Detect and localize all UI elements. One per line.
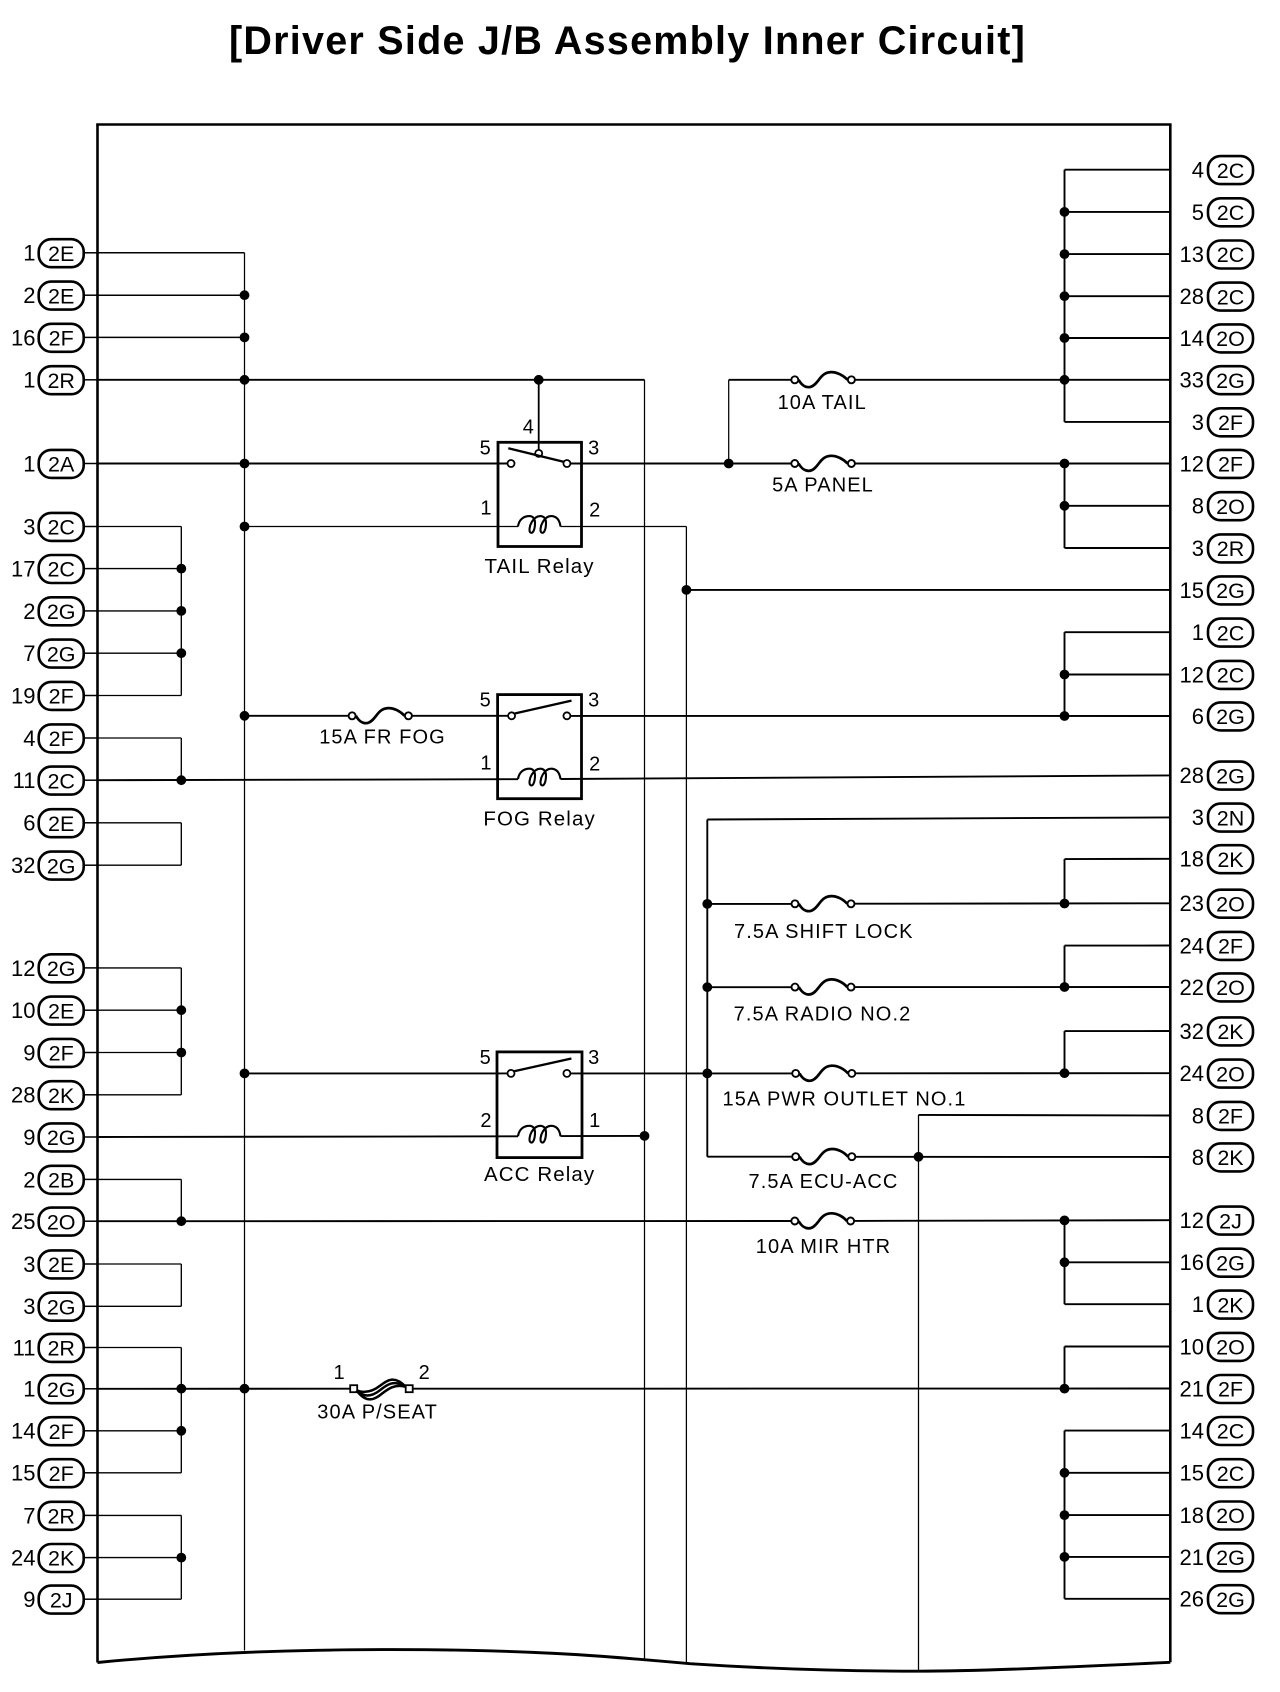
cluster bracket vertical 3 2E/3 2G [180, 1264, 182, 1306]
wire pin 11 2R to cluster bracket [98, 1347, 182, 1349]
connector pin 6 (2G) right, y=716.0 [1192, 702, 1253, 730]
svg-text:25: 25 [11, 1209, 35, 1234]
svg-text:4: 4 [523, 416, 535, 438]
J/B assembly box: curved bottom border [98, 1650, 1171, 1672]
svg-text:2G: 2G [47, 1295, 76, 1319]
wire pin 14 2F to cluster bracket [98, 1430, 182, 1432]
right bracket vertical 12 2F..3 2R [1064, 464, 1066, 549]
junction right bracket / 21 2F [1060, 1384, 1069, 1393]
connector pin 3 (2E) left, y=1264.0 [23, 1250, 98, 1278]
connector pin 11 (2C) left, y=780.2 [13, 767, 99, 795]
wire pin 9 2J to cluster bracket [98, 1598, 182, 1600]
junction right bracket / 12 2C [1060, 670, 1069, 679]
vertical x=644 from 1 2R line to bottom edge [644, 380, 646, 1661]
connector pin 1 (2A) left, y=463.5 [23, 450, 98, 478]
cluster bracket vertical 7 2R/24 2K/9 2J [180, 1515, 182, 1599]
svg-text:24: 24 [1180, 933, 1204, 958]
wire bracket to pin 8 2O [1065, 505, 1171, 507]
connector pin 24 (2O) right, y=1073.2 [1180, 1060, 1253, 1088]
junction bus A / ACC contact line [240, 1069, 249, 1078]
wire bracket to pin 18 2O [1065, 1514, 1171, 1516]
svg-text:2G: 2G [47, 854, 76, 878]
svg-text:11: 11 [13, 768, 36, 793]
wire pin 2 2B to cluster bracket [98, 1178, 182, 1180]
svg-text:2F: 2F [49, 1462, 74, 1486]
connector pin 24 (2K) left, y=1557.6 [11, 1544, 98, 1572]
wire bracket to pin 1 2C [1065, 631, 1171, 633]
svg-text:1: 1 [480, 498, 492, 520]
connector pin 33 (2G) right, y=379.8 [1180, 366, 1253, 394]
svg-text:1: 1 [23, 241, 35, 266]
wire TAIL relay pin 4 riser from 1 2R line [538, 380, 540, 450]
vertical bus A at x=244.5 from 1 2E down to bottom edge [244, 253, 246, 1651]
wire junction x=686 to pin 15 2G [686, 589, 1170, 591]
connector pin 21 (2G) right, y=1556.9 [1180, 1543, 1253, 1571]
wire pin 32 2G to cluster bracket [98, 864, 182, 866]
junction right bracket / 24 2O [1060, 1069, 1069, 1078]
svg-text:2: 2 [589, 753, 601, 775]
svg-text:2F: 2F [49, 327, 74, 351]
svg-text:2G: 2G [1216, 1251, 1245, 1275]
J/B assembly box: left border [96, 125, 99, 1663]
svg-text:5A PANEL: 5A PANEL [772, 475, 874, 497]
connector pin 1 (2C) right, y=632.2 [1192, 619, 1253, 647]
right bracket vertical 24 2F to RADIO line [1064, 946, 1066, 988]
svg-text:2F: 2F [1218, 411, 1243, 435]
svg-text:5: 5 [1192, 200, 1204, 225]
svg-text:3: 3 [23, 1252, 35, 1277]
wire riser to 10A TAIL fuse [729, 379, 791, 381]
wire pin 7 2G to cluster bracket [98, 652, 182, 654]
junction bus A / P-SEAT line [240, 1384, 249, 1393]
svg-text:2J: 2J [1219, 1209, 1242, 1233]
svg-text:24: 24 [1180, 1061, 1204, 1086]
wire pin 2 2G to cluster bracket [98, 610, 182, 612]
svg-text:18: 18 [1180, 1503, 1204, 1528]
connector pin 3 (2F) right, y=421.9 [1192, 408, 1253, 436]
wire bracket to pin 16 2G [1065, 1261, 1171, 1263]
connector pin 32 (2G) left, y=865.2 [11, 852, 98, 880]
junction bracket / 24 2K [177, 1553, 186, 1562]
connector pin 8 (2K) right, y=1157.0 [1192, 1143, 1253, 1171]
svg-text:ACC Relay: ACC Relay [484, 1163, 595, 1186]
fusible link 30A P/SEAT: terminals and twisted element [350, 1380, 413, 1400]
junction bus A / 16 2F [240, 333, 249, 342]
svg-text:3: 3 [23, 514, 35, 539]
svg-text:2F: 2F [1218, 935, 1243, 959]
svg-text:9: 9 [23, 1040, 35, 1065]
wire pin 12 2G to cluster bracket [98, 967, 182, 969]
relay TAIL: switch blade [508, 448, 563, 461]
svg-text:2O: 2O [1216, 1062, 1245, 1086]
wire pin 1 2E to bus node A [98, 252, 245, 254]
connector pin 9 (2J) left, y=1599.2 [23, 1586, 98, 1614]
svg-text:12: 12 [1180, 1208, 1204, 1233]
svg-text:2E: 2E [48, 242, 74, 266]
wire pin 1 2A to TAIL relay contact 5 [98, 463, 508, 465]
relay FOG: contact circle pin 3 [563, 712, 570, 719]
svg-text:8: 8 [1192, 494, 1204, 519]
svg-text:TAIL Relay: TAIL Relay [485, 555, 595, 578]
svg-text:5: 5 [480, 1047, 492, 1069]
svg-text:5: 5 [480, 438, 492, 460]
svg-text:2C: 2C [1217, 201, 1244, 225]
svg-text:2K: 2K [48, 1084, 75, 1108]
svg-text:11: 11 [13, 1335, 36, 1360]
connector pin 1 (2G) left, y=1388.8 [23, 1375, 98, 1403]
relay FOG: contact circle pin 5 [508, 712, 515, 719]
fuse 15A FR FOG: terminal circles and wavy element [349, 708, 412, 723]
cluster bracket vertical 6 2E/32 2G [180, 823, 182, 865]
wire fuse bus bottom to 7.5A ECU-ACC fuse [707, 1156, 792, 1158]
svg-text:24: 24 [11, 1546, 35, 1571]
junction right bracket / 12 2F [1060, 459, 1069, 468]
relay ACC: switch blade [514, 1059, 571, 1072]
connector pin 2 (2E) left, y=295.2 [23, 282, 98, 310]
svg-text:2R: 2R [1217, 537, 1244, 561]
svg-text:21: 21 [1180, 1545, 1204, 1570]
fuse 10A MIR HTR: terminal circles and wavy element [791, 1213, 854, 1228]
svg-text:12: 12 [1180, 662, 1204, 687]
svg-text:10A MIR HTR: 10A MIR HTR [756, 1236, 891, 1258]
svg-text:2J: 2J [50, 1588, 73, 1612]
connector pin 11 (2R) left, y=1347.5 [13, 1334, 99, 1362]
wire 15A FR FOG fuse to FOG relay contact 5 [412, 715, 508, 717]
connector pin 17 (2C) left, y=568.6 [11, 555, 98, 583]
svg-text:5: 5 [480, 690, 492, 712]
svg-text:2G: 2G [1216, 579, 1245, 603]
relay ACC: contact circle pin 5 [508, 1070, 515, 1077]
junction right bracket / 28 2C [1060, 292, 1069, 301]
wire pin 9 2F to cluster bracket [98, 1052, 182, 1054]
svg-text:2C: 2C [1217, 243, 1244, 267]
connector pin 25 (2O) left, y=1221.2 [11, 1208, 98, 1236]
junction fuse bus / PWR OUTLET line [703, 1069, 712, 1078]
svg-text:18: 18 [1180, 847, 1204, 872]
fuse bus vertical x=707 [706, 820, 708, 1157]
junction bus A / 2 2E [240, 291, 249, 300]
svg-text:4: 4 [23, 726, 35, 751]
wire bracket to pin 14 2O [1065, 337, 1171, 339]
svg-text:3: 3 [1192, 536, 1204, 561]
relay FOG: coil [518, 769, 561, 786]
junction right bracket / 13 2C [1060, 250, 1069, 259]
junction x=644 / ACC coil pin 1 [640, 1132, 649, 1141]
svg-text:7.5A RADIO NO.2: 7.5A RADIO NO.2 [734, 1004, 912, 1026]
wire 10A TAIL fuse to pin 33 2G [855, 379, 1170, 381]
svg-text:8: 8 [1192, 1103, 1204, 1128]
wire pin 10 2E to cluster bracket [98, 1009, 182, 1011]
relay FOG: switch blade [515, 701, 572, 714]
svg-text:2O: 2O [1216, 892, 1245, 916]
connector pin 3 (2N) right, y=817.2 [1192, 804, 1253, 832]
svg-text:2G: 2G [1216, 1588, 1245, 1612]
connector pin 19 (2F) left, y=695.5 [11, 682, 98, 710]
svg-text:12: 12 [11, 956, 35, 981]
wire bracket to pin 18 2K [1065, 858, 1171, 860]
svg-text:15: 15 [1180, 578, 1204, 603]
svg-text:2O: 2O [47, 1210, 76, 1234]
svg-text:26: 26 [1180, 1587, 1204, 1612]
connector pin 28 (2K) left, y=1094.8 [11, 1081, 98, 1109]
svg-text:14: 14 [11, 1419, 35, 1444]
svg-text:2O: 2O [1216, 495, 1245, 519]
fuse 15A PWR OUTLET NO.1: terminal circles and wavy element [792, 1066, 855, 1081]
connector pin 16 (2F) left, y=337.4 [11, 324, 98, 352]
wire pin 7 2R to cluster bracket [98, 1514, 182, 1516]
svg-text:21: 21 [1180, 1377, 1204, 1402]
wire pin 16 2F to bus node A [98, 336, 245, 338]
svg-text:2A: 2A [48, 453, 75, 477]
connector pin 12 (2J) right, y=1220.2 [1180, 1207, 1253, 1235]
wire bus node A to 15A FR FOG fuse [245, 715, 349, 717]
wire bus node A to ACC relay contact 5 [245, 1072, 508, 1074]
right bracket vertical 4 2C..3 2F [1064, 170, 1066, 422]
svg-text:17: 17 [11, 557, 35, 582]
svg-text:2O: 2O [1216, 1336, 1245, 1360]
wire bracket to pin 28 2C [1065, 295, 1171, 297]
svg-text:6: 6 [23, 811, 35, 836]
svg-text:10: 10 [1180, 1334, 1204, 1359]
fuse 5A PANEL: terminal circles and wavy element [791, 456, 855, 471]
junction right bracket / 6 2G [1060, 712, 1069, 721]
vertical x=686 from TAIL coil down to bottom edge [685, 527, 687, 1664]
wire 7.5A RADIO NO.2 fuse to pin 22 2O [855, 986, 1171, 988]
junction bus A / TAIL coil feed [240, 522, 249, 531]
svg-text:15: 15 [11, 1461, 35, 1486]
svg-text:3: 3 [23, 1294, 35, 1319]
svg-text:23: 23 [1180, 891, 1204, 916]
svg-text:2G: 2G [47, 1378, 76, 1402]
junction right bracket / 5 2C [1060, 208, 1069, 217]
svg-text:9: 9 [23, 1125, 35, 1150]
connector pin 23 (2O) right, y=903.3 [1180, 890, 1253, 918]
connector pin 5 (2C) right, y=211.9 [1192, 198, 1253, 226]
connector pin 22 (2O) right, y=987.0 [1180, 973, 1253, 1001]
junction right bracket / 15 2C [1060, 1468, 1069, 1477]
wire bracket to pin 24 2F [1065, 945, 1171, 947]
svg-text:2N: 2N [1217, 806, 1244, 830]
junction fuse bus / SHIFT LOCK line [703, 900, 712, 909]
svg-text:2K: 2K [48, 1547, 75, 1571]
wire pin 1 2G to 30A P/SEAT fusible link [98, 1388, 351, 1390]
svg-text:3: 3 [1192, 410, 1204, 435]
relay FOG: case [498, 695, 582, 799]
connector pin 6 (2E) left, y=822.8 [23, 809, 98, 837]
svg-text:2F: 2F [1218, 1378, 1243, 1402]
svg-text:2K: 2K [1217, 1020, 1244, 1044]
svg-text:32: 32 [11, 853, 35, 878]
relay TAIL: contact circle pin 3 [563, 460, 570, 467]
junction bus A / 1 2A line [240, 459, 249, 468]
connector pin 26 (2G) right, y=1598.8 [1180, 1585, 1253, 1613]
wire bracket to pin 5 2C [1065, 211, 1171, 213]
connector pin 9 (2G) left, y=1137.0 [23, 1123, 98, 1151]
wire 7.5A SHIFT LOCK fuse to pin 23 2O [855, 902, 1171, 904]
fuse 7.5A SHIFT LOCK: terminal circles and wavy element [792, 896, 855, 911]
junction right bracket / 14 2O [1060, 334, 1069, 343]
vertical x=918 from 8 2F line to bottom edge [918, 1115, 920, 1671]
fuse 10A TAIL: terminal circles and wavy element [791, 372, 855, 387]
connector pin 21 (2F) right, y=1388.6 [1180, 1375, 1253, 1403]
svg-text:1: 1 [333, 1362, 345, 1384]
wire ACC relay contact 3 to 15A PWR OUTLET fuse [571, 1072, 792, 1074]
svg-text:2K: 2K [1217, 1293, 1244, 1317]
junction x=918 / ECU-ACC line [914, 1152, 923, 1161]
svg-text:2E: 2E [48, 999, 74, 1023]
relay TAIL: contact circle pin 4 [535, 450, 542, 457]
connector pin 8 (2F) right, y=1115.5 [1192, 1102, 1253, 1130]
relay ACC: contact circle pin 3 [563, 1070, 570, 1077]
junction bus A / 1 2R [240, 375, 249, 384]
right bracket vertical 18 2K to SHIFT LOCK line [1064, 859, 1066, 904]
junction bracket / 10 2E [177, 1006, 186, 1015]
right bracket vertical 12 2J..1 2K [1064, 1220, 1066, 1304]
connector pin 14 (2O) right, y=338.0 [1180, 324, 1253, 352]
connector pin 10 (2E) left, y=1010.2 [11, 997, 98, 1025]
wire bracket to pin 4 2C [1065, 169, 1171, 171]
junction fuse bus / RADIO line [703, 983, 712, 992]
wire pin 2 2E to bus node A [98, 294, 245, 296]
junction PANEL line / TAIL fuse riser [724, 459, 733, 468]
cluster bracket vertical 4 2F/11 2C [180, 738, 182, 780]
wire 30A P/SEAT fusible link to pin 21 2F [413, 1388, 1170, 1390]
connector pin 1 (2K) right, y=1304.2 [1192, 1291, 1253, 1319]
junction bracket / 14 2F [177, 1426, 186, 1435]
wire bracket to pin 10 2O [1065, 1346, 1171, 1348]
connector pin 28 (2G) right, y=775.2 [1180, 762, 1253, 790]
wire 7.5A ECU-ACC fuse to pin 8 2K [856, 1156, 1171, 1158]
svg-text:28: 28 [11, 1083, 35, 1108]
svg-text:3: 3 [588, 1047, 600, 1069]
junction bracket / 11 2C [177, 776, 186, 785]
wire bracket to pin 12 2C [1065, 674, 1171, 676]
svg-text:2E: 2E [48, 284, 74, 308]
wire bracket to pin 21 2G [1065, 1556, 1171, 1558]
wire pin 11 2C to FOG relay coil pin 1 [98, 779, 519, 780]
wire ACC relay coil pin 1 to vertical x=644 [561, 1135, 645, 1137]
svg-text:33: 33 [1180, 368, 1204, 393]
connector pin 18 (2O) right, y=1515.1 [1180, 1502, 1253, 1530]
svg-text:[Driver Side J/B Assembly Inne: [Driver Side J/B Assembly Inner Circuit] [229, 19, 1026, 63]
svg-text:16: 16 [11, 325, 35, 350]
connector pin 12 (2G) left, y=967.9 [11, 954, 98, 982]
svg-text:10A TAIL: 10A TAIL [778, 392, 867, 414]
junction right bracket / 22 2O [1060, 983, 1069, 992]
connector pin 7 (2R) left, y=1515.4 [23, 1502, 98, 1530]
relay TAIL: case [498, 442, 582, 546]
connector pin 10 (2O) right, y=1346.5 [1180, 1333, 1253, 1361]
connector pin 15 (2G) right, y=590.0 [1180, 576, 1253, 604]
wire FOG relay contact 3 to pin 6 2G [571, 715, 1171, 717]
connector pin 14 (2C) right, y=1430.6 [1180, 1417, 1253, 1445]
svg-text:2: 2 [480, 1110, 492, 1132]
junction right bracket / 16 2G [1060, 1258, 1069, 1267]
wire TAIL relay contact 3 to 5A PANEL fuse [571, 463, 791, 465]
svg-text:2R: 2R [47, 369, 74, 393]
junction right bracket / 21 2G [1060, 1553, 1069, 1562]
connector pin 2 (2B) left, y=1179.4 [23, 1166, 98, 1194]
svg-text:1: 1 [1192, 620, 1204, 645]
junction bracket / 9 2F [177, 1048, 186, 1057]
svg-text:28: 28 [1180, 284, 1204, 309]
wire fuse bus to 7.5A RADIO NO.2 fuse [707, 986, 791, 988]
wire pin 24 2K to cluster bracket [98, 1557, 182, 1559]
svg-text:2G: 2G [47, 1126, 76, 1150]
svg-text:2G: 2G [47, 600, 76, 624]
svg-text:2C: 2C [1217, 159, 1244, 183]
svg-text:8: 8 [1192, 1145, 1204, 1170]
svg-text:7: 7 [23, 641, 35, 666]
junction bracket / 7 2G [177, 649, 186, 658]
connector pin 3 (2G) left, y=1306.3 [23, 1293, 98, 1321]
svg-text:7.5A SHIFT LOCK: 7.5A SHIFT LOCK [734, 921, 914, 943]
svg-text:2F: 2F [49, 1042, 74, 1066]
wire TAIL relay coil pin 2 to vertical x=686 [561, 526, 687, 528]
connector pin 1 (2E) left, y=252.8 [23, 239, 98, 267]
svg-text:14: 14 [1180, 1419, 1204, 1444]
svg-text:2E: 2E [48, 1253, 74, 1277]
svg-text:2C: 2C [1217, 664, 1244, 688]
connector pin 4 (2C) right, y=169.7 [1192, 156, 1253, 184]
wire pin 25 2O to 10A MIR HTR fuse [98, 1220, 792, 1222]
svg-text:2C: 2C [1217, 621, 1244, 645]
svg-text:2G: 2G [47, 957, 76, 981]
wire bracket to pin 26 2G [1065, 1598, 1171, 1600]
wire pin 3 2G to cluster bracket [98, 1305, 182, 1307]
svg-text:2C: 2C [1217, 285, 1244, 309]
connector pin 3 (2C) left, y=526.5 [23, 513, 98, 541]
svg-text:2F: 2F [1218, 453, 1243, 477]
svg-text:12: 12 [1180, 451, 1204, 476]
junction x=686 / 15 2G line [682, 586, 691, 595]
connector pin 2 (2G) left, y=610.9 [23, 597, 98, 625]
svg-text:2R: 2R [47, 1337, 74, 1361]
cluster bracket vertical 3 2C/17 2C/2 2G/7 2G/19 2F [180, 527, 182, 696]
connector pin 4 (2F) left, y=738.0 [23, 724, 98, 752]
wire bracket to pin 32 2K [1065, 1030, 1171, 1032]
svg-text:2C: 2C [47, 516, 74, 540]
svg-text:3: 3 [588, 438, 600, 460]
connector pin 15 (2C) right, y=1472.8 [1180, 1459, 1253, 1487]
wire pin 17 2C to cluster bracket [98, 568, 182, 570]
right bracket vertical 14 2C..26 2G [1064, 1431, 1066, 1599]
svg-text:15A FR FOG: 15A FR FOG [319, 727, 446, 749]
connector pin 14 (2F) left, y=1430.8 [11, 1417, 98, 1445]
connector pin 13 (2C) right, y=254.1 [1180, 241, 1253, 269]
svg-text:2G: 2G [47, 642, 76, 666]
wire fuse bus to 7.5A SHIFT LOCK fuse [707, 903, 791, 905]
svg-text:2: 2 [23, 283, 35, 308]
connector pin 16 (2G) right, y=1262.3 [1180, 1249, 1253, 1277]
svg-text:FOG Relay: FOG Relay [483, 808, 595, 831]
svg-text:1: 1 [589, 1110, 601, 1132]
wire pin 4 2F to cluster bracket [98, 737, 182, 739]
svg-text:32: 32 [1180, 1019, 1204, 1044]
svg-text:30A P/SEAT: 30A P/SEAT [317, 1401, 438, 1423]
junction 1 2R line / TAIL pin 4 riser [534, 375, 543, 384]
svg-text:2C: 2C [1217, 1420, 1244, 1444]
connector pin 3 (2R) right, y=548.0 [1192, 534, 1253, 562]
junction bracket / 25 2O [177, 1217, 186, 1226]
svg-text:2G: 2G [1216, 1546, 1245, 1570]
wire riser x=918 to pin 8 2F [919, 1114, 1171, 1117]
junction right bracket / 8 2O [1060, 501, 1069, 510]
wire bracket to pin 3 2F [1065, 421, 1171, 423]
connector pin 8 (2O) right, y=505.8 [1192, 492, 1253, 520]
svg-text:15: 15 [1180, 1461, 1204, 1486]
wire pin 19 2F to cluster bracket [98, 695, 182, 697]
